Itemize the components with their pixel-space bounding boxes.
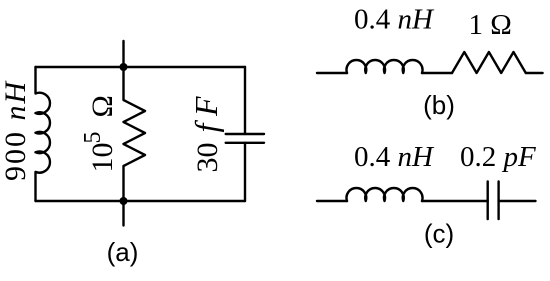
- svg-text:0.2 pF: 0.2 pF: [460, 141, 536, 173]
- wire: bottom horizontal of circuit (a): [36, 200, 246, 202]
- resistor R2 1 ohm zigzag: [452, 52, 526, 73]
- svg-text:30fF: 30fF: [188, 96, 224, 173]
- svg-text:105Ω: 105Ω: [80, 95, 119, 172]
- node: bottom junction dot: [120, 197, 128, 205]
- wire: circuit (b) left lead: [317, 72, 347, 74]
- wire: top horizontal of circuit (a): [36, 66, 246, 68]
- resistor R1 10^5 ohm (middle branch, zigzag): [124, 67, 146, 201]
- capacitor C2 0.2 pF plates: [487, 181, 489, 219]
- wire: circuit (c) left lead: [317, 200, 347, 202]
- wire: between L3 and C2: [422, 200, 488, 202]
- svg-text:1 Ω: 1 Ω: [469, 9, 512, 41]
- capacitor C1 30 fF (right branch): [244, 67, 246, 134]
- inductor L1 900 nH (left branch, 4 loops): [36, 67, 50, 201]
- svg-text:(a): (a): [107, 237, 139, 267]
- node: top junction dot: [120, 63, 128, 71]
- wire: circuit (b) right lead: [526, 72, 543, 74]
- svg-text:(c): (c): [424, 219, 454, 249]
- wire: top terminal stub: [122, 41, 124, 67]
- inductor L2 0.4 nH in (b), 4 loops: [346, 60, 422, 73]
- wire: circuit (c) right lead: [499, 200, 536, 202]
- wire: bottom terminal stub: [122, 201, 124, 226]
- inductor L3 0.4 nH in (c), 4 loops: [346, 188, 422, 201]
- wire: between L2 and R2: [422, 72, 452, 74]
- svg-text:0.4 nH: 0.4 nH: [354, 4, 435, 36]
- svg-text:(b): (b): [423, 90, 455, 120]
- svg-text:900 nH: 900 nH: [0, 80, 32, 182]
- svg-text:0.4 nH: 0.4 nH: [354, 141, 435, 173]
